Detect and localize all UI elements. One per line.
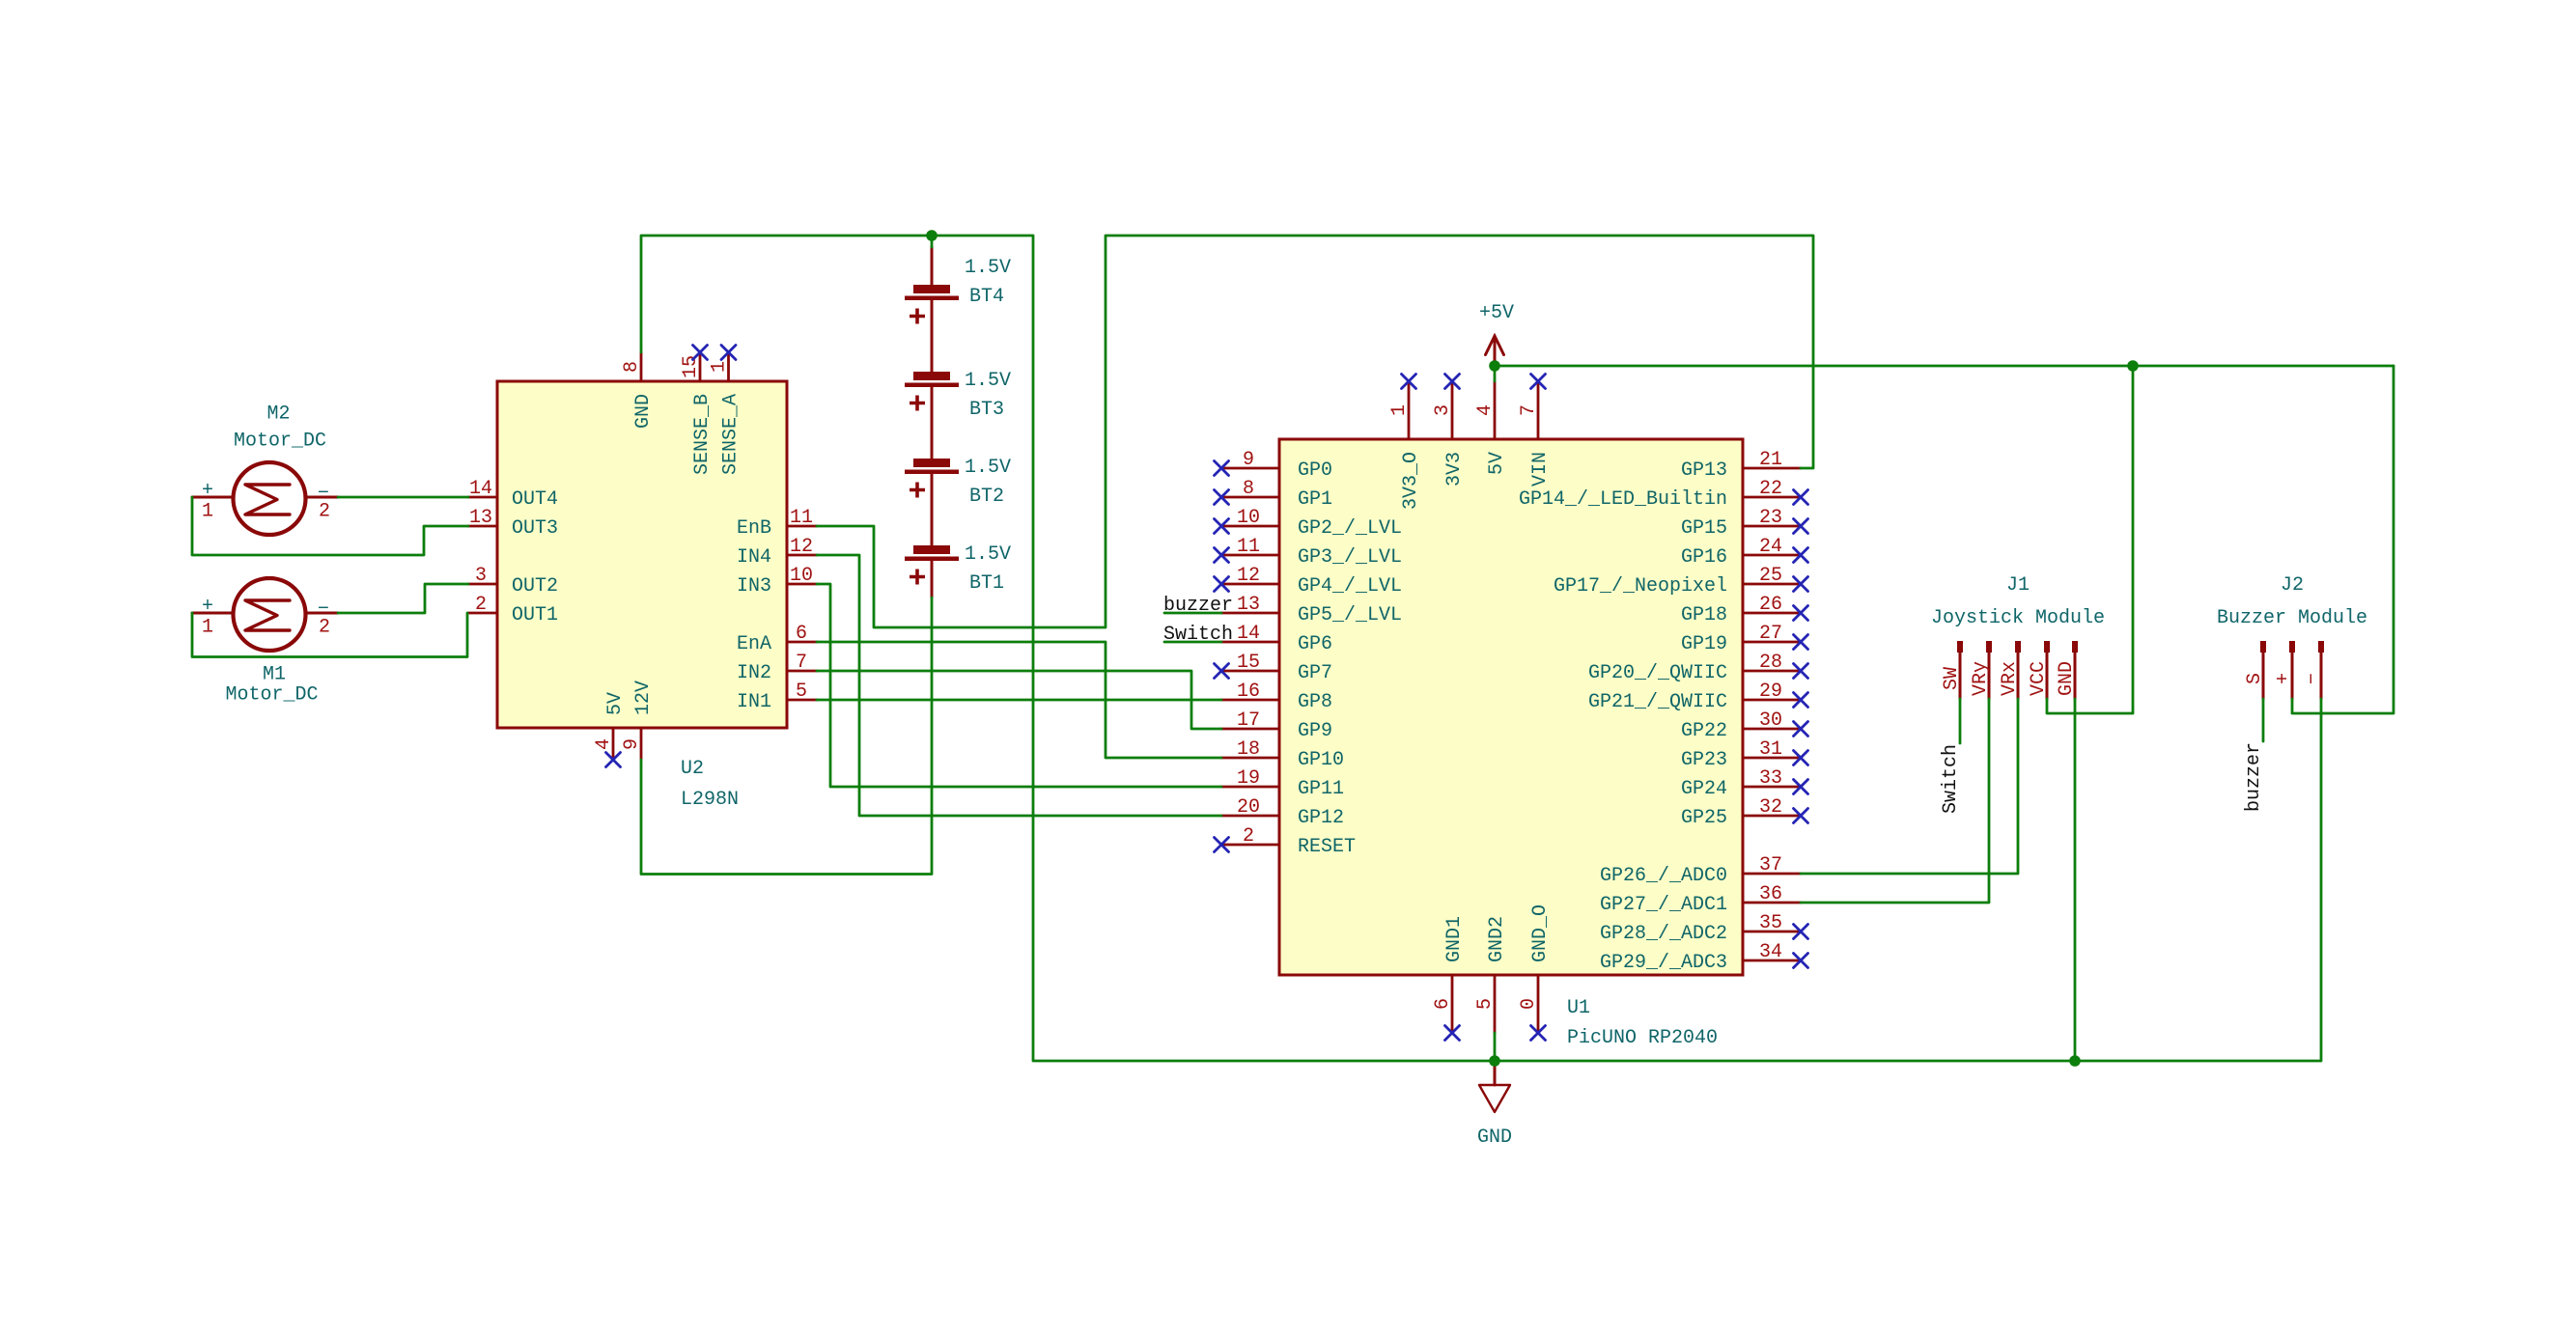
svg-text:GP29_/_ADC3: GP29_/_ADC3 [1600, 952, 1727, 974]
svg-text:GND: GND [632, 394, 655, 429]
svg-text:J2: J2 [2281, 574, 2304, 597]
svg-text:30: 30 [1759, 709, 1782, 732]
svg-text:4: 4 [1474, 404, 1497, 416]
svg-text:1: 1 [709, 361, 731, 373]
svg-text:GP3_/_LVL: GP3_/_LVL [1298, 546, 1402, 569]
svg-text:1.5V: 1.5V [965, 370, 1011, 392]
svg-text:17: 17 [1237, 709, 1260, 732]
svg-text:24: 24 [1759, 536, 1782, 558]
svg-text:+: + [202, 596, 213, 618]
svg-text:GP4_/_LVL: GP4_/_LVL [1298, 575, 1402, 598]
svg-text:18: 18 [1237, 738, 1260, 761]
svg-text:M2: M2 [266, 403, 290, 426]
svg-text:SENSE_B: SENSE_B [691, 394, 714, 475]
svg-text:35: 35 [1759, 912, 1782, 934]
svg-text:GP20_/_QWIIC: GP20_/_QWIIC [1588, 662, 1727, 684]
svg-text:9: 9 [1243, 449, 1254, 471]
svg-text:OUT2: OUT2 [512, 575, 558, 598]
svg-text:BT2: BT2 [969, 486, 1004, 508]
svg-text:GP22: GP22 [1681, 720, 1727, 742]
svg-text:3: 3 [475, 565, 487, 587]
svg-text:GND1: GND1 [1443, 916, 1466, 962]
svg-text:GP10: GP10 [1298, 749, 1344, 771]
svg-text:VRy: VRy [1970, 661, 1992, 696]
svg-text:GND: GND [1477, 1126, 1512, 1149]
svg-text:28: 28 [1759, 652, 1782, 674]
svg-text:13: 13 [469, 507, 492, 529]
svg-text:5V: 5V [1486, 452, 1508, 475]
svg-text:2: 2 [319, 501, 330, 523]
svg-text:IN2: IN2 [737, 662, 771, 684]
svg-text:GP26_/_ADC0: GP26_/_ADC0 [1600, 865, 1727, 887]
svg-text:2: 2 [1243, 825, 1254, 848]
svg-text:IN1: IN1 [737, 691, 771, 713]
svg-text:8: 8 [1243, 478, 1254, 500]
svg-text:GP5_/_LVL: GP5_/_LVL [1298, 604, 1402, 626]
svg-text:31: 31 [1759, 738, 1782, 761]
svg-text:6: 6 [796, 623, 807, 645]
svg-text:M1: M1 [263, 664, 286, 686]
svg-text:GP9: GP9 [1298, 720, 1332, 742]
svg-text:Motor_DC: Motor_DC [234, 431, 326, 453]
svg-text:3V3: 3V3 [1443, 452, 1466, 487]
svg-text:GP8: GP8 [1298, 691, 1332, 713]
svg-text:GP27_/_ADC1: GP27_/_ADC1 [1600, 894, 1727, 916]
svg-text:GP0: GP0 [1298, 459, 1332, 482]
svg-text:10: 10 [1237, 507, 1260, 529]
svg-text:GP23: GP23 [1681, 749, 1727, 771]
svg-text:GND_O: GND_O [1529, 904, 1552, 962]
svg-text:0: 0 [1518, 998, 1540, 1010]
svg-text:Buzzer Module: Buzzer Module [2217, 607, 2367, 629]
svg-text:Switch: Switch [1163, 624, 1233, 646]
svg-text:J1: J1 [2006, 574, 2030, 597]
svg-text:GP15: GP15 [1681, 517, 1727, 540]
svg-text:GP6: GP6 [1298, 633, 1332, 655]
svg-text:3V3_O: 3V3_O [1400, 452, 1422, 510]
svg-text:VCC: VCC [2028, 661, 2050, 696]
svg-text:GP21_/_QWIIC: GP21_/_QWIIC [1588, 691, 1727, 713]
svg-text:16: 16 [1237, 681, 1260, 703]
svg-text:GP14_/_LED_Builtin: GP14_/_LED_Builtin [1519, 488, 1727, 511]
svg-text:VRx: VRx [1999, 661, 2021, 696]
svg-text:32: 32 [1759, 796, 1782, 819]
svg-text:12: 12 [790, 536, 813, 558]
svg-text:15: 15 [1237, 652, 1260, 674]
svg-text:14: 14 [1237, 623, 1260, 645]
svg-text:BT3: BT3 [969, 399, 1004, 421]
svg-text:7: 7 [1518, 404, 1540, 416]
svg-text:OUT1: OUT1 [512, 604, 558, 626]
svg-text:23: 23 [1759, 507, 1782, 529]
svg-text:VIN: VIN [1529, 452, 1552, 487]
svg-text:34: 34 [1759, 941, 1782, 963]
svg-text:GP2_/_LVL: GP2_/_LVL [1298, 517, 1402, 540]
svg-text:11: 11 [790, 507, 813, 529]
svg-text:21: 21 [1759, 449, 1782, 471]
svg-text:GP28_/_ADC2: GP28_/_ADC2 [1600, 923, 1727, 945]
svg-text:GP7: GP7 [1298, 662, 1332, 684]
svg-text:36: 36 [1759, 883, 1782, 905]
svg-text:5: 5 [1474, 998, 1497, 1010]
svg-text:14: 14 [469, 478, 492, 500]
svg-text:1: 1 [202, 501, 213, 523]
svg-text:GP1: GP1 [1298, 488, 1332, 511]
svg-text:GP19: GP19 [1681, 633, 1727, 655]
svg-text:SW: SW [1941, 667, 1963, 690]
svg-text:GP25: GP25 [1681, 807, 1727, 829]
svg-text:1.5V: 1.5V [965, 543, 1011, 566]
svg-text:BT1: BT1 [969, 572, 1004, 595]
svg-text:OUT3: OUT3 [512, 517, 558, 540]
svg-text:11: 11 [1237, 536, 1260, 558]
svg-text:L298N: L298N [681, 789, 739, 811]
svg-text:2: 2 [475, 594, 487, 616]
svg-text:GND: GND [2056, 661, 2078, 696]
svg-text:13: 13 [1237, 594, 1260, 616]
svg-text:S: S [2244, 673, 2266, 684]
svg-text:9: 9 [621, 738, 643, 750]
svg-text:Joystick Module: Joystick Module [1931, 607, 2105, 629]
svg-text:EnB: EnB [737, 517, 771, 540]
svg-text:6: 6 [1432, 998, 1454, 1010]
svg-text:33: 33 [1759, 767, 1782, 790]
svg-text:GP13: GP13 [1681, 459, 1727, 482]
svg-text:PicUNO RP2040: PicUNO RP2040 [1567, 1027, 1718, 1049]
svg-text:GP11: GP11 [1298, 778, 1344, 800]
svg-text:1: 1 [1388, 404, 1411, 416]
svg-text:25: 25 [1759, 565, 1782, 587]
svg-text:5: 5 [796, 681, 807, 703]
svg-text:29: 29 [1759, 681, 1782, 703]
svg-text:12V: 12V [632, 681, 655, 715]
svg-text:+5V: +5V [1479, 302, 1514, 324]
svg-text:15: 15 [680, 355, 702, 378]
svg-text:10: 10 [790, 565, 813, 587]
svg-text:26: 26 [1759, 594, 1782, 616]
svg-text:Switch: Switch [1940, 744, 1962, 814]
svg-text:1.5V: 1.5V [965, 457, 1011, 479]
svg-text:−: − [2302, 673, 2324, 684]
svg-text:7: 7 [796, 652, 807, 674]
svg-text:GP12: GP12 [1298, 807, 1344, 829]
svg-text:OUT4: OUT4 [512, 488, 558, 511]
svg-text:8: 8 [621, 361, 643, 373]
svg-text:3: 3 [1432, 404, 1454, 416]
svg-text:1.5V: 1.5V [965, 257, 1011, 279]
svg-text:GP16: GP16 [1681, 546, 1727, 569]
svg-text:GND2: GND2 [1486, 916, 1508, 962]
svg-text:U2: U2 [681, 758, 704, 780]
svg-text:IN3: IN3 [737, 575, 771, 598]
svg-text:5V: 5V [604, 692, 627, 715]
svg-text:IN4: IN4 [737, 546, 771, 569]
svg-text:buzzer: buzzer [1163, 595, 1233, 617]
svg-text:37: 37 [1759, 854, 1782, 876]
svg-text:EnA: EnA [737, 633, 771, 655]
svg-text:2: 2 [319, 617, 330, 639]
svg-text:22: 22 [1759, 478, 1782, 500]
svg-text:12: 12 [1237, 565, 1260, 587]
svg-text:27: 27 [1759, 623, 1782, 645]
svg-text:GP17_/_Neopixel: GP17_/_Neopixel [1554, 575, 1727, 598]
svg-text:RESET: RESET [1298, 836, 1356, 858]
svg-text:BT4: BT4 [969, 286, 1004, 308]
svg-text:1: 1 [202, 617, 213, 639]
svg-text:+: + [2273, 673, 2295, 684]
svg-text:20: 20 [1237, 796, 1260, 819]
svg-text:U1: U1 [1567, 997, 1590, 1019]
svg-text:GP18: GP18 [1681, 604, 1727, 626]
svg-text:+: + [202, 480, 213, 502]
svg-text:GP24: GP24 [1681, 778, 1727, 800]
svg-text:4: 4 [593, 738, 615, 750]
svg-text:buzzer: buzzer [2243, 742, 2265, 812]
svg-text:Motor_DC: Motor_DC [225, 684, 318, 707]
svg-text:19: 19 [1237, 767, 1260, 790]
svg-text:SENSE_A: SENSE_A [720, 394, 742, 475]
